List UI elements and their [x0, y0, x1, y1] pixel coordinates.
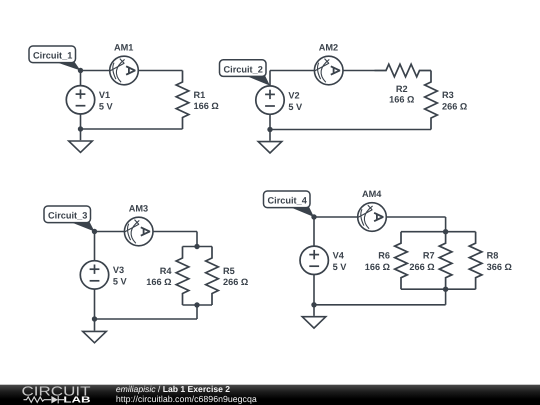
wire node4 to AM4	[314, 216, 358, 218]
resistor R7 266 &#937;	[409, 232, 452, 290]
wire down to parallel top bar	[445, 217, 447, 232]
voltage source V2	[256, 86, 303, 114]
svg-text:V1: V1	[99, 90, 110, 100]
node circuit 1 ground junction	[78, 126, 83, 131]
voltage source V1	[66, 86, 113, 114]
svg-text:166 Ω: 166 Ω	[365, 262, 390, 272]
logo diode	[51, 396, 58, 403]
svg-text:V4: V4	[333, 251, 345, 261]
svg-text:R5: R5	[223, 266, 235, 276]
node parallel bottom	[194, 302, 199, 307]
wire parallel bottom down c4	[445, 289, 447, 305]
wire parallel bottom bar	[183, 304, 213, 306]
node parallel top c4	[443, 229, 448, 234]
wire AM2 to R2	[343, 70, 375, 72]
svg-text:5 V: 5 V	[333, 262, 348, 272]
wire V2 bottom	[269, 114, 271, 129]
ground	[69, 141, 93, 152]
ground	[83, 331, 107, 342]
node parallel bottom c4	[443, 287, 448, 292]
wire AM3 to parallel pair	[153, 231, 197, 233]
wire to ground	[269, 130, 271, 141]
ammeter AM3	[124, 204, 153, 246]
wire down to parallel top bar	[196, 232, 198, 247]
svg-text:V3: V3	[113, 265, 124, 275]
node label flag Circuit_3	[44, 206, 95, 232]
resistor R6 166 &#937;	[365, 232, 408, 290]
wire bottom rail circuit 1	[81, 128, 183, 130]
wire V3 bottom	[94, 289, 96, 319]
resistor R1 166 &#937;	[176, 71, 219, 130]
resistor R3 266 &#937;	[425, 71, 468, 130]
svg-text:R8: R8	[487, 251, 499, 261]
svg-text:emiliapisic / Lab 1 Exercise 2: emiliapisic / Lab 1 Exercise 2	[116, 384, 230, 394]
wire V3 top	[94, 232, 96, 261]
logo resistor squiggle	[24, 397, 52, 403]
node label flag Circuit_4	[264, 191, 315, 217]
svg-text:AM3: AM3	[129, 204, 148, 214]
svg-text:Circuit_4: Circuit_4	[268, 196, 308, 206]
voltage source V4	[300, 246, 347, 274]
node circuit 4 ground junction	[311, 302, 316, 307]
wire bottom rail circuit 4	[314, 304, 446, 306]
svg-text:5 V: 5 V	[99, 102, 114, 112]
node circuit 3 top junction	[92, 229, 97, 234]
node circuit 2 ground junction	[267, 127, 272, 132]
svg-text:166 Ω: 166 Ω	[194, 101, 219, 111]
svg-text:AM4: AM4	[362, 189, 382, 199]
svg-text:R2: R2	[396, 84, 408, 94]
svg-text:266 Ω: 266 Ω	[442, 101, 467, 111]
node label flag Circuit_2	[220, 60, 271, 86]
svg-text:5 V: 5 V	[113, 277, 128, 287]
ground	[258, 142, 282, 153]
wire parallel top bar c4	[401, 231, 476, 233]
wire node1 to V1 top	[80, 71, 82, 86]
node circuit 4 top junction	[311, 214, 316, 219]
wire node1 to AM1	[81, 70, 110, 72]
wire to ground	[313, 305, 315, 316]
svg-text:R4: R4	[160, 266, 173, 276]
wire node3 to AM3	[95, 231, 125, 233]
node parallel top	[194, 244, 199, 249]
voltage source V3	[80, 261, 127, 289]
svg-text:R3: R3	[442, 90, 454, 100]
svg-text:5 V: 5 V	[288, 102, 303, 112]
ammeter AM4	[358, 189, 387, 231]
resistor R8 366 &#937;	[469, 232, 512, 290]
node label flag Circuit_1	[29, 46, 81, 71]
wire top rail to AM2	[270, 70, 314, 72]
svg-text:166 Ω: 166 Ω	[146, 277, 171, 287]
svg-text:http://circuitlab.com/c6896n9u: http://circuitlab.com/c6896n9uegcqa	[116, 394, 257, 404]
wire V1 bottom	[80, 114, 82, 129]
svg-text:R1: R1	[194, 90, 206, 100]
ammeter AM2	[314, 43, 343, 85]
node circuit 1 top junction	[78, 68, 83, 73]
svg-text:V2: V2	[288, 90, 299, 100]
wire AM4 to parallel trio	[386, 216, 445, 218]
svg-text:266 Ω: 266 Ω	[409, 262, 434, 272]
resistor R4 166 &#937;	[146, 247, 189, 306]
svg-text:Circuit_3: Circuit_3	[48, 211, 87, 221]
wire V2 top	[269, 71, 271, 86]
ammeter AM1	[110, 43, 139, 85]
resistor R2 166 &#937;	[375, 64, 432, 105]
svg-text:Circuit_1: Circuit_1	[33, 51, 72, 61]
wire AM1 to R1	[138, 70, 182, 72]
svg-text:Circuit_2: Circuit_2	[224, 64, 263, 74]
node circuit 3 ground junction	[92, 316, 97, 321]
svg-text:AM2: AM2	[319, 43, 338, 53]
wire to ground	[80, 129, 82, 140]
svg-text:R7: R7	[423, 251, 435, 261]
wire parallel bottom bar c4	[401, 288, 476, 290]
svg-text:366 Ω: 366 Ω	[487, 262, 512, 272]
wire bottom rail circuit 2	[270, 129, 431, 131]
wire bottom rail circuit 3	[95, 318, 198, 320]
wire to ground	[94, 319, 96, 331]
wire parallel top bar	[183, 246, 213, 248]
wire V4 top	[313, 217, 315, 246]
resistor R5 266 &#937;	[206, 247, 249, 306]
svg-text:266 Ω: 266 Ω	[223, 277, 248, 287]
svg-text:LAB: LAB	[63, 394, 90, 404]
svg-text:R6: R6	[378, 251, 390, 261]
svg-text:166 Ω: 166 Ω	[389, 95, 414, 105]
ground	[302, 317, 326, 328]
wire parallel bottom down	[196, 305, 198, 319]
svg-text:AM1: AM1	[114, 43, 133, 53]
wire V4 bottom	[313, 275, 315, 305]
